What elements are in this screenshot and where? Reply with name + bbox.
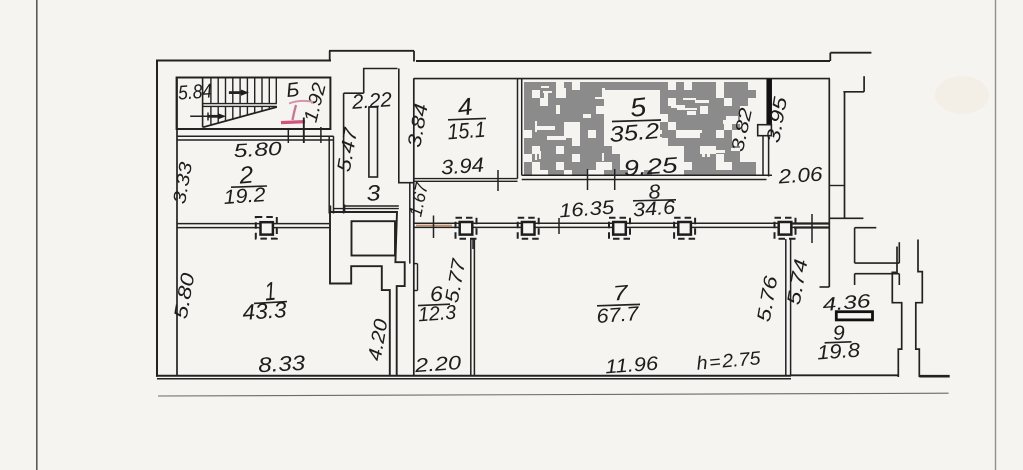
column at x=684.6 xyxy=(674,218,695,239)
stair flight left edge xyxy=(202,79,204,128)
svg-text:3.94: 3.94 xyxy=(440,154,484,180)
wall stub at bottom of right wing vertical xyxy=(820,286,830,288)
wall: rooms 4/5 top line xyxy=(414,78,830,80)
stair arrow lower flight xyxy=(190,115,212,117)
column at x=619.5 xyxy=(609,218,630,239)
svg-text:3.84: 3.84 xyxy=(404,102,432,149)
svg-text:5.47: 5.47 xyxy=(334,125,363,174)
svg-text:2.20: 2.20 xyxy=(413,352,462,377)
wall: room7 right double xyxy=(785,239,787,376)
wall: right wing outer vertical xyxy=(828,79,830,287)
svg-text:15.1: 15.1 xyxy=(447,117,487,145)
svg-text:34.6: 34.6 xyxy=(632,197,676,222)
wall: room4 left xyxy=(413,78,415,376)
svg-text:11.96: 11.96 xyxy=(604,353,659,379)
zigzag stair wall left xyxy=(892,247,901,378)
wall: room2 top double xyxy=(177,135,334,137)
svg-text:19.8: 19.8 xyxy=(816,340,860,365)
red hatch symbol xyxy=(281,101,312,123)
svg-text:19.2: 19.2 xyxy=(223,184,266,209)
wall: room4 bottom double xyxy=(414,178,518,180)
tick right of last column xyxy=(811,214,813,243)
svg-text:2.06: 2.06 xyxy=(777,163,825,188)
door jamb ticks below stairwell xyxy=(287,129,289,143)
duct rect in room3 xyxy=(369,107,378,177)
elevator shaft inner rect xyxy=(352,221,396,255)
wall: top outer middle segment xyxy=(416,60,830,62)
stair landing lines xyxy=(203,103,277,105)
stair diagonal cut line xyxy=(203,107,277,127)
svg-text:4.20: 4.20 xyxy=(365,317,393,362)
svg-text:Б: Б xyxy=(285,79,300,102)
wall: room3 upper step xyxy=(363,69,365,94)
dimension base line bottom xyxy=(158,393,949,396)
svg-text:5.74: 5.74 xyxy=(784,258,813,307)
svg-text:5.76: 5.76 xyxy=(754,274,783,323)
censored pixelation room5 xyxy=(524,82,756,175)
stairwell box xyxy=(177,78,331,130)
stair treads lower flight xyxy=(210,106,212,124)
wall: bottom stoop thick right xyxy=(919,375,949,378)
svg-text:2.22: 2.22 xyxy=(350,88,393,114)
door gap line right wing xyxy=(829,185,844,187)
svg-text:5.80: 5.80 xyxy=(233,139,283,163)
column at x=528.2 xyxy=(518,218,539,239)
wall: bottom right of room 9 xyxy=(791,374,898,376)
zigzag stair wall right xyxy=(916,240,923,378)
svg-text:h = 2.75: h = 2.75 xyxy=(696,348,762,375)
wall: step room3 right to room4 left xyxy=(399,182,414,184)
svg-text:5.77: 5.77 xyxy=(442,256,471,305)
wall: room1/2 partition right part xyxy=(256,223,330,225)
stair treads upper flight xyxy=(210,79,212,104)
svg-text:7: 7 xyxy=(612,281,631,305)
wall: top bump over room 3 xyxy=(329,51,331,61)
rusty tint in corridor wall left stub xyxy=(416,224,452,226)
wall: bottom outer xyxy=(156,375,791,377)
svg-text:35.2: 35.2 xyxy=(608,118,660,147)
tick 1.67 xyxy=(433,216,435,239)
svg-text:8.33: 8.33 xyxy=(258,352,307,377)
shaft stub connectors xyxy=(330,206,332,214)
wall: right wing inner vertical xyxy=(844,92,846,219)
svg-text:67.7: 67.7 xyxy=(596,303,640,328)
elevator shaft outline xyxy=(330,212,405,376)
wall: room2 right double xyxy=(328,136,330,213)
svg-text:43.3: 43.3 xyxy=(242,297,288,325)
wall: room1/2 partition left part xyxy=(177,223,256,225)
wall: left outer xyxy=(156,60,158,377)
wall: top outer left segment xyxy=(157,60,331,62)
window thickening of corridor wall end xyxy=(793,222,830,224)
tick below column 466 xyxy=(472,239,474,250)
tick near 16.35 xyxy=(558,218,560,234)
wall: top-right bump xyxy=(829,53,831,61)
wall: room6 right double xyxy=(470,239,472,376)
legend bar (thick rect) xyxy=(836,312,872,320)
wall: stub at top of right wing xyxy=(863,76,865,92)
corridor wall with columns xyxy=(414,222,830,224)
svg-text:3: 3 xyxy=(365,180,382,206)
column at x=466.0 xyxy=(456,218,477,239)
wall: room5 bottom double xyxy=(522,174,772,176)
paper smudge xyxy=(935,76,989,114)
svg-text:16.35: 16.35 xyxy=(558,197,615,223)
wall: room3 left xyxy=(343,93,345,213)
svg-text:1.92: 1.92 xyxy=(301,80,331,124)
stair arrow upper flight xyxy=(229,91,242,94)
scan border left xyxy=(36,0,38,470)
wall: room4/5 divider double xyxy=(517,79,519,179)
ticks on room5 bottom xyxy=(587,169,589,190)
niche white box xyxy=(758,125,772,136)
closet walls above room9 xyxy=(830,217,864,219)
wall: left inner xyxy=(176,78,178,376)
tick on room4 bottom xyxy=(497,170,499,191)
thick black wall segment right of room5 xyxy=(766,79,772,124)
wall: room3 bottom xyxy=(344,205,399,207)
svg-text:9.25: 9.25 xyxy=(623,152,680,181)
svg-text:5.84: 5.84 xyxy=(177,80,212,104)
wall: room3 right xyxy=(398,69,400,184)
scan border right xyxy=(995,0,997,470)
wall: room5 right lower double xyxy=(762,136,764,176)
wall: room6 left step xyxy=(414,263,418,265)
svg-text:3.33: 3.33 xyxy=(169,161,196,206)
svg-text:5.80: 5.80 xyxy=(171,271,200,320)
svg-text:12.3: 12.3 xyxy=(417,302,456,327)
column at x=785.0 xyxy=(775,218,796,239)
